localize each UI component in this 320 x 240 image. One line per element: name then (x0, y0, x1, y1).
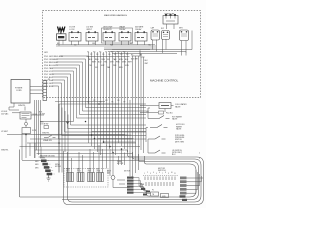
svg-text:11: 11 (174, 173, 176, 175)
wire mid horizontals short (55, 102, 136, 143)
noise filter Z1 (22, 128, 31, 134)
svg-text:UNBAL SW: UNBAL SW (43, 139, 52, 142)
svg-text:GRN: GRN (35, 164, 38, 166)
motor enclosure dashed (64, 169, 108, 188)
wire routing lattice verticals 3 (130, 100, 144, 179)
svg-text:L2 WHT: L2 WHT (1, 131, 9, 133)
plug pin box (180, 177, 187, 180)
bottom small boxes (151, 192, 159, 196)
component K2 LID SW INPUT (86, 33, 98, 42)
ground symbol (47, 175, 51, 181)
svg-text:INPUT: INPUT (86, 29, 93, 31)
svg-text:P2: P2 (90, 54, 92, 56)
svg-text:GRN/YEL: GRN/YEL (42, 133, 49, 135)
connector strip P4 (87, 56, 130, 58)
buzzer BZ1 (58, 27, 65, 32)
svg-text:P5: P5 (126, 54, 128, 56)
plug pin box (180, 192, 187, 195)
svg-text:P4: P4 (96, 54, 98, 56)
svg-text:P1: P1 (48, 79, 50, 81)
fuse F1 (20, 112, 31, 119)
wire (122, 41, 129, 45)
switch hot valve (148, 116, 170, 119)
ground lug (45, 169, 51, 172)
harness loop 1 (64, 150, 204, 205)
svg-text:1: 1 (199, 153, 200, 155)
micro row P6 (140, 112, 158, 114)
switch lid (148, 150, 166, 153)
switch pressure (150, 125, 168, 128)
pressure switch PS1 (163, 16, 178, 25)
svg-text:P6: P6 (118, 100, 120, 102)
svg-text:P1: P1 (114, 54, 116, 56)
wire bar stubs (9, 103, 14, 110)
svg-text:SPIN: SPIN (88, 169, 92, 171)
svg-text:GRY: GRY (146, 111, 149, 113)
svg-text:GRN: GRN (35, 168, 38, 170)
svg-text:P4: P4 (123, 52, 125, 54)
relay outline box (102, 28, 133, 43)
svg-text:P2: P2 (94, 100, 96, 102)
ground lug (42, 163, 48, 166)
junction dots (25, 103, 122, 153)
wire stack fan (134, 178, 151, 194)
wire to ground (30, 143, 41, 158)
winding (67, 173, 74, 182)
component K3 WTR TMP SENSOR (103, 33, 115, 42)
wire (104, 48, 156, 50)
pin box (127, 186, 134, 188)
wire cord lines (30, 87, 43, 94)
svg-text:10: 10 (171, 172, 173, 174)
winding (77, 173, 84, 182)
dashed link (143, 175, 178, 177)
wire left verticals (22, 119, 26, 160)
winding (97, 173, 104, 182)
wire long neutral run (7, 110, 125, 135)
wire bus top right (153, 39, 187, 53)
wire (106, 41, 113, 45)
svg-text:PNK: PNK (110, 45, 113, 47)
wire (182, 31, 193, 56)
svg-text:YEL: YEL (89, 65, 92, 67)
svg-text:P5: P5 (99, 52, 101, 54)
wire group P4 drops (89, 57, 128, 101)
svg-text:P9-5 TAN: P9-5 TAN (44, 67, 53, 70)
svg-text:MACHINE CONTROL: MACHINE CONTROL (150, 78, 179, 82)
wire group P4 pins (89, 52, 128, 57)
switch S2 (44, 135, 56, 138)
wire row1 (140, 106, 174, 113)
svg-text:RELAY: RELAY (119, 28, 126, 31)
svg-text:P5: P5 (112, 102, 114, 104)
svg-text:P1: P1 (152, 190, 154, 192)
svg-text:P3: P3 (93, 52, 95, 54)
ground lug (47, 173, 53, 176)
belt sw circle (111, 176, 115, 180)
wire right col links (146, 108, 150, 153)
svg-text:TB: TB (152, 194, 154, 196)
switch door (44, 126, 49, 129)
power cord box (11, 80, 30, 104)
switch wtr level (148, 136, 166, 139)
svg-text:P3: P3 (120, 54, 122, 56)
plug pin box (180, 180, 187, 183)
wire (138, 41, 145, 45)
component K1 DOOR LOCK (69, 33, 81, 42)
ground lug (41, 160, 47, 163)
motor connector comb row 2 (146, 182, 173, 186)
svg-text:MOTOR: MOTOR (55, 166, 62, 168)
plug lower marks (180, 195, 186, 197)
svg-text:MOTOR: MOTOR (124, 171, 131, 173)
svg-text:P7: P7 (124, 102, 126, 104)
svg-text:LID SW: LID SW (39, 114, 45, 116)
wire (167, 24, 175, 29)
ground wire frame (19, 150, 21, 198)
motor connector pins (145, 177, 175, 181)
wire (104, 50, 192, 54)
wire plug fan (187, 170, 204, 193)
svg-text:VALVE: VALVE (175, 105, 181, 108)
wire routing lattice verticals (59, 104, 68, 173)
junction arrow (66, 122, 69, 125)
svg-text:GRN/YEL: GRN/YEL (1, 150, 8, 152)
svg-text:5: 5 (199, 158, 200, 160)
wire from caps (140, 50, 141, 57)
svg-text:P4: P4 (106, 100, 108, 102)
svg-text:P6: P6 (102, 54, 104, 56)
harness loop 3 (62, 154, 199, 200)
svg-text:P3: P3 (100, 102, 102, 104)
wire grn stub (24, 107, 26, 111)
verticals into bottom right (107, 146, 125, 177)
svg-text:120 VAC: 120 VAC (1, 113, 9, 116)
svg-text:CORD: CORD (16, 90, 22, 92)
pin box (127, 177, 134, 179)
junction node (25, 122, 28, 125)
svg-text:WHT: WHT (145, 63, 149, 65)
svg-text:(WTR TMP): (WTR TMP) (175, 141, 184, 143)
machine control enclosure (dashed) (43, 11, 201, 98)
connector P6 cluster (141, 57, 145, 100)
svg-text:P1: P1 (87, 52, 89, 54)
wire routing horizontals long left feeds (20, 135, 145, 161)
svg-text:P8: P8 (108, 54, 110, 56)
pin box (127, 183, 134, 185)
svg-text:LOCK: LOCK (69, 29, 75, 31)
svg-text:GRN: GRN (35, 161, 38, 163)
pin box (127, 180, 134, 182)
water valve box (159, 103, 171, 109)
ground lug (44, 166, 50, 169)
svg-text:GRN: GRN (122, 62, 127, 64)
svg-text:P1: P1 (88, 102, 90, 104)
wire (89, 41, 96, 45)
wire (72, 41, 79, 45)
pin box (127, 189, 134, 191)
svg-text:SENSOR: SENSOR (103, 29, 112, 31)
wire collector (56, 40, 156, 46)
plug pin box (180, 188, 187, 191)
harness loop 2 (68, 152, 202, 202)
svg-text:MOTOR: MOTOR (117, 163, 124, 165)
winding (88, 173, 95, 182)
pin box (127, 192, 134, 194)
wire row to valve (92, 131, 147, 133)
svg-text:YEL: YEL (104, 62, 107, 64)
svg-text:P7: P7 (105, 52, 107, 54)
svg-text:P9: P9 (111, 52, 113, 54)
svg-text:BLK WHT: BLK WHT (131, 59, 138, 61)
svg-text:YEL: YEL (148, 45, 151, 47)
connector micro cluster (141, 188, 145, 190)
wire routing lattice verticals 2 (89, 100, 128, 155)
harness loop 4 (20, 156, 196, 197)
component K5 AGITATE RELAY (135, 33, 147, 42)
plug pin box (180, 184, 187, 187)
svg-text:RELAY: RELAY (135, 28, 142, 31)
svg-text:ORN: ORN (101, 59, 106, 61)
wire bottom cluster (113, 180, 130, 188)
wire L1 (12, 113, 44, 115)
svg-text:P9-6 VIO: P9-6 VIO (44, 71, 53, 73)
wire left bus verticals (35, 100, 41, 158)
svg-text:SW: SW (107, 173, 110, 175)
svg-text:GRN/YEL: GRN/YEL (18, 105, 25, 107)
svg-text:MAIN WIRE HARNESS: MAIN WIRE HARNESS (104, 14, 128, 17)
terminal bar (43, 81, 47, 101)
component K4 WASH RELAY (119, 33, 131, 42)
svg-text:P6-1 BLU: P6-1 BLU (166, 113, 173, 115)
svg-text:VALVE: VALVE (172, 118, 178, 121)
svg-text:VALVE: VALVE (176, 128, 182, 131)
wire motor drops (59, 104, 103, 173)
svg-text:SWITCH: SWITCH (158, 170, 166, 172)
svg-text:P2: P2 (117, 52, 119, 54)
